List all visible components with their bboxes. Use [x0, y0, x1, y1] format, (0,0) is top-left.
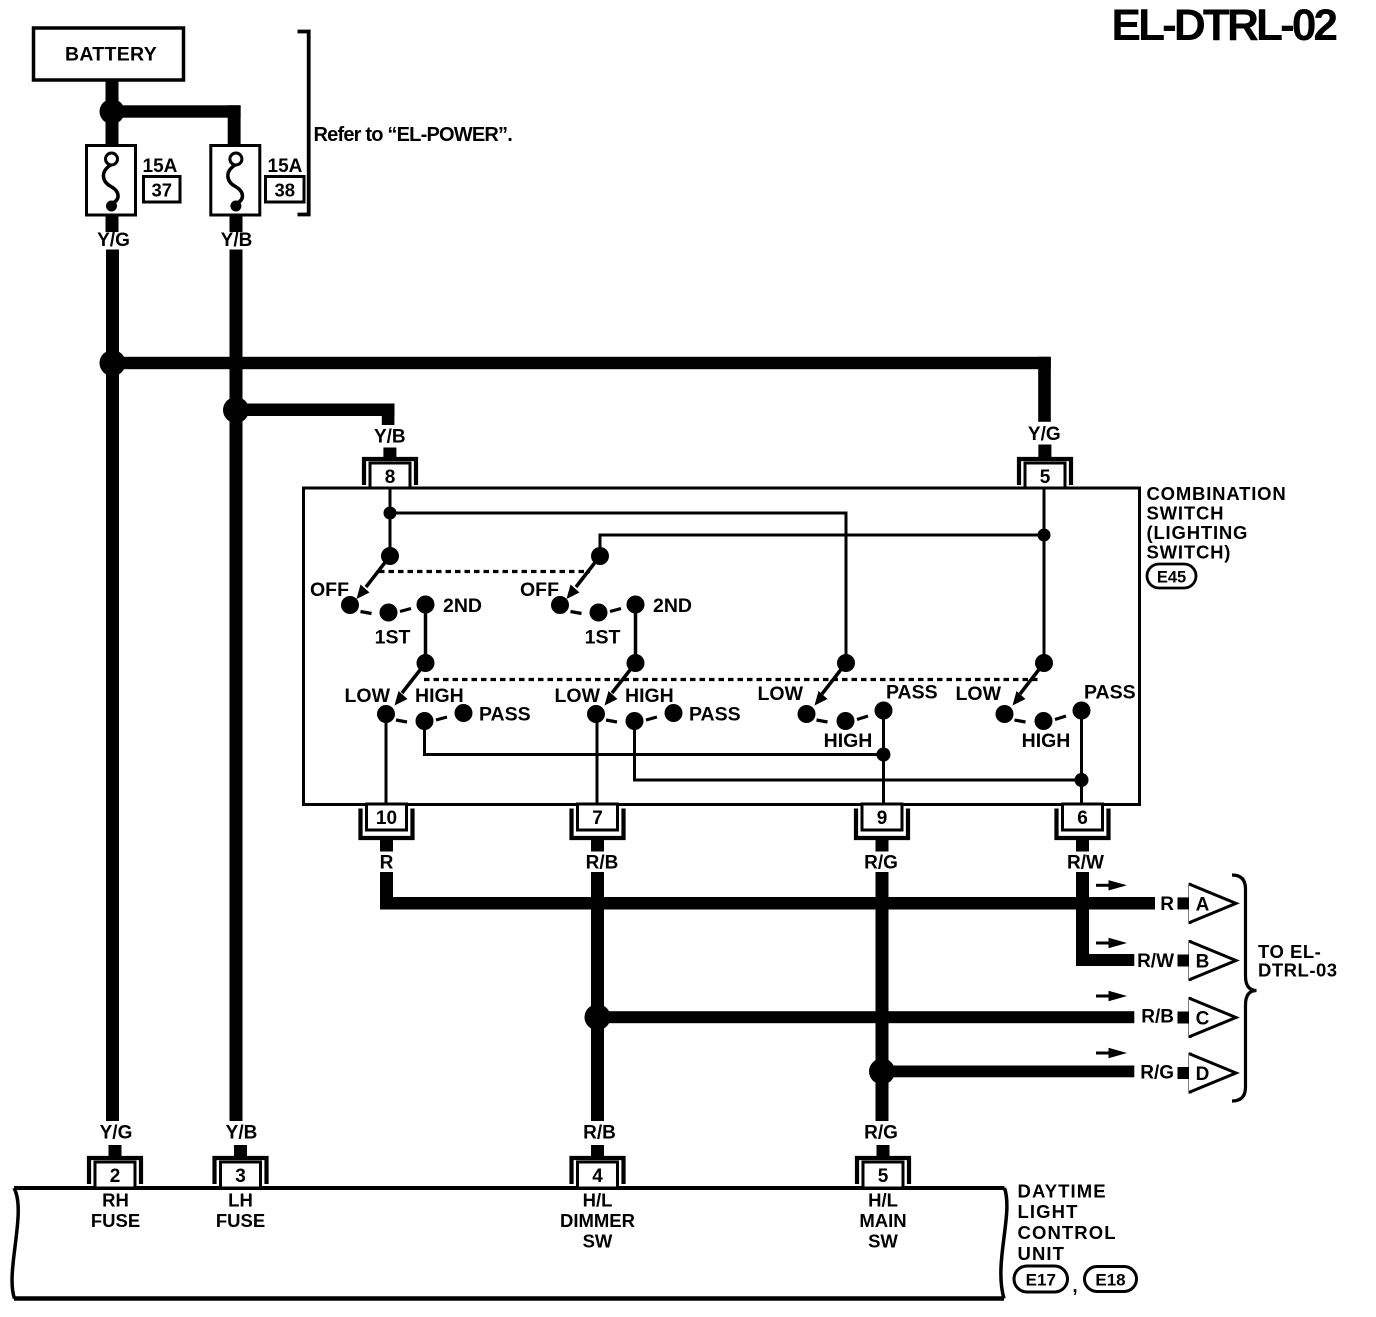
switch dimmer 3 (pins 8-9) — [758, 654, 938, 752]
daytime light control unit box E17 E18 — [12, 1188, 1007, 1299]
connector pin 5 control unit — [857, 1158, 909, 1188]
svg-text:37: 37 — [152, 179, 173, 200]
svg-text:(LIGHTING: (LIGHTING — [1147, 522, 1249, 543]
svg-text:DTRL-03: DTRL-03 — [1258, 960, 1338, 981]
dashed mechanical link lower — [424, 678, 1040, 681]
combination switch box E45 — [304, 488, 1140, 805]
label LH FUSE — [216, 1190, 265, 1232]
wire junction to fuse 38 — [112, 105, 241, 146]
svg-text:SW: SW — [868, 1230, 898, 1251]
connector pin 4 — [572, 1158, 624, 1188]
svg-text:5: 5 — [1040, 467, 1051, 488]
terminal A — [1178, 883, 1237, 924]
wire stub pin 7 — [591, 838, 604, 852]
svg-text:Y/G: Y/G — [100, 1123, 133, 1144]
wire stub pin 4 — [591, 1145, 604, 1159]
svg-text:SWITCH: SWITCH — [1147, 503, 1225, 524]
fuse number box 37 — [144, 177, 181, 203]
svg-text:38: 38 — [275, 179, 296, 200]
svg-text:PASS: PASS — [479, 704, 531, 726]
svg-text:UNIT: UNIT — [1018, 1243, 1066, 1264]
wire stub pin 5 — [1038, 445, 1051, 458]
wire pin8 branch to dimmer switch 3 — [390, 513, 846, 663]
svg-text:MAIN: MAIN — [859, 1210, 906, 1231]
svg-text:SW: SW — [583, 1230, 613, 1251]
svg-text:R/G: R/G — [1140, 1063, 1174, 1084]
connector pin 2 — [89, 1158, 141, 1188]
svg-text:HIGH: HIGH — [415, 685, 464, 707]
svg-text:Y/B: Y/B — [221, 230, 253, 251]
svg-text:SWITCH): SWITCH) — [1147, 542, 1232, 563]
connector label E45 — [1147, 564, 1196, 588]
svg-text:FUSE: FUSE — [216, 1210, 265, 1231]
svg-text:HIGH: HIGH — [1022, 730, 1071, 752]
label DAYTIME LIGHT CONTROL UNIT — [1018, 1180, 1117, 1264]
label RH FUSE — [91, 1190, 140, 1232]
wire stub pin 3 — [234, 1145, 247, 1159]
wire sw1 LOW to pin 10 — [385, 714, 388, 805]
wire junction to fuse 37 — [106, 118, 119, 146]
svg-text:LOW: LOW — [345, 685, 391, 707]
connector label E18 — [1085, 1267, 1137, 1292]
fuse 37 15A — [87, 146, 136, 216]
svg-text:HIGH: HIGH — [625, 685, 674, 707]
connector pin 8 — [364, 459, 416, 489]
label H/L MAIN SW — [859, 1190, 906, 1252]
svg-text:Y/G: Y/G — [1028, 424, 1061, 445]
svg-text:7: 7 — [592, 808, 603, 829]
switch dimmer 4 (pins 5-6) — [956, 654, 1136, 752]
dashed mechanical link upper — [379, 570, 590, 573]
connector pin 10 — [361, 804, 413, 838]
terminal C — [1178, 997, 1237, 1038]
node pin5 branch — [1038, 529, 1051, 542]
svg-text:EL-DTRL-02: EL-DTRL-02 — [1111, 1, 1336, 50]
svg-text:C: C — [1196, 1008, 1210, 1029]
svg-text:4: 4 — [592, 1166, 603, 1187]
svg-text:OFF: OFF — [520, 579, 559, 601]
wire Y/G vertical run — [106, 250, 119, 1122]
svg-text:H/L: H/L — [868, 1190, 898, 1211]
svg-text:E17: E17 — [1026, 1270, 1056, 1289]
connector pin 6 — [1057, 804, 1109, 838]
svg-text:LIGHT: LIGHT — [1018, 1201, 1079, 1222]
svg-text:B: B — [1196, 951, 1210, 972]
svg-text:9: 9 — [877, 808, 888, 829]
wire sw1 HIGH to pin 9 net — [425, 721, 884, 755]
svg-text:2ND: 2ND — [653, 595, 692, 617]
svg-text:LOW: LOW — [555, 685, 601, 707]
svg-text:R: R — [380, 853, 394, 874]
wire R/B vertical run — [591, 872, 604, 1121]
svg-text:2ND: 2ND — [443, 595, 482, 617]
node Y/B junction — [223, 397, 249, 423]
svg-text:PASS: PASS — [886, 682, 938, 704]
svg-text:LOW: LOW — [758, 683, 804, 705]
flow arrow B — [1096, 942, 1112, 945]
wire Y/B vertical run — [230, 250, 243, 1122]
node R/G junction — [869, 1058, 895, 1084]
wire sw4 PASS to pin 6 — [1080, 711, 1083, 806]
wire stub pin 6 — [1076, 838, 1089, 852]
wire pin 5 riser — [1043, 489, 1046, 663]
svg-text:RH: RH — [102, 1190, 129, 1211]
svg-text:6: 6 — [1077, 808, 1088, 829]
svg-text:PASS: PASS — [1084, 682, 1136, 704]
flow arrow D — [1096, 1052, 1112, 1055]
svg-text:R/B: R/B — [586, 853, 619, 874]
node HIGH1/PASS3 junction — [877, 748, 891, 762]
wire R/W to terminal B — [1076, 872, 1134, 966]
label H/L DIMMER SW — [560, 1190, 635, 1252]
svg-text:R/B: R/B — [583, 1123, 616, 1144]
fuse number box 38 — [266, 177, 305, 203]
svg-text:OFF: OFF — [310, 579, 349, 601]
svg-text:CONTROL: CONTROL — [1018, 1222, 1117, 1243]
svg-text:COMBINATION: COMBINATION — [1147, 483, 1287, 504]
svg-text:Y/G: Y/G — [97, 230, 130, 251]
switch lighting 2 (pins 5-7) — [520, 547, 741, 730]
node battery junction — [100, 99, 125, 124]
label combination switch — [1147, 483, 1287, 563]
svg-text:15A: 15A — [268, 156, 303, 177]
brace to EL-DTRL-03 — [1232, 875, 1257, 1101]
svg-text:1ST: 1ST — [585, 627, 621, 649]
node R/B junction — [585, 1004, 611, 1030]
svg-text:E18: E18 — [1095, 1270, 1125, 1289]
svg-text:8: 8 — [385, 467, 396, 488]
svg-text:DIMMER: DIMMER — [560, 1210, 635, 1231]
svg-text:Y/B: Y/B — [374, 427, 406, 448]
wire fuse 37 output stub — [106, 215, 119, 232]
svg-text:10: 10 — [376, 808, 397, 829]
svg-text:H/L: H/L — [583, 1190, 613, 1211]
wire stub pin 10 — [380, 838, 393, 852]
wire stub pin 5 control unit — [877, 1145, 890, 1159]
flow arrow A — [1096, 884, 1112, 887]
wire sw3 PASS to pin 9 — [882, 711, 885, 806]
terminal D — [1178, 1053, 1237, 1094]
svg-text:R/B: R/B — [1141, 1007, 1174, 1028]
svg-text:R/W: R/W — [1067, 853, 1104, 874]
connector pin 5 — [1019, 459, 1071, 489]
node Y/G junction — [100, 350, 126, 376]
node pin8 branch — [384, 507, 397, 520]
connector pin 9 — [856, 804, 908, 838]
wire sw2 HIGH to pin 6 net — [635, 721, 1082, 780]
svg-text:3: 3 — [235, 1166, 246, 1187]
switch lighting 1 (pins 8-10) — [310, 547, 531, 730]
node HIGH2/PASS4 junction — [1075, 773, 1089, 787]
wire R/B to terminal C — [598, 1011, 1135, 1023]
svg-text:R/W: R/W — [1137, 951, 1174, 972]
svg-text:D: D — [1196, 1064, 1210, 1085]
wire sw2 LOW to pin 7 — [596, 714, 599, 805]
wire R/G vertical run — [876, 872, 889, 1121]
wire pin5 branch to lighting switch 2 — [600, 535, 1044, 556]
wire Y/G junction to pin 5 — [113, 357, 1051, 422]
wire fuse 38 output stub — [230, 215, 243, 232]
connector label E17 — [1014, 1266, 1068, 1292]
svg-text:Refer to “EL-POWER”.: Refer to “EL-POWER”. — [314, 124, 513, 146]
svg-text:LH: LH — [228, 1190, 253, 1211]
svg-text:HIGH: HIGH — [824, 730, 873, 752]
svg-text:R/G: R/G — [864, 1123, 898, 1144]
svg-text:5: 5 — [878, 1166, 889, 1187]
wire R to terminal A — [380, 872, 1155, 910]
svg-text:R: R — [1160, 894, 1174, 915]
svg-text:E45: E45 — [1157, 568, 1186, 586]
svg-text:,: , — [1072, 1276, 1077, 1297]
connector pin 7 — [572, 804, 624, 838]
svg-text:15A: 15A — [143, 156, 178, 177]
svg-text:PASS: PASS — [689, 704, 741, 726]
wire Y/B junction to pin 8 — [236, 404, 395, 426]
svg-text:R/G: R/G — [864, 853, 898, 874]
wire stub pin 9 — [876, 838, 889, 852]
terminal B — [1178, 940, 1237, 981]
wire stub pin 8 — [383, 448, 396, 460]
svg-text:LOW: LOW — [956, 683, 1002, 705]
battery — [34, 28, 184, 80]
bracket refer to EL-POWER — [298, 32, 309, 215]
flow arrow C — [1096, 995, 1112, 998]
svg-text:A: A — [1196, 894, 1210, 915]
svg-text:2: 2 — [110, 1166, 121, 1187]
fuse 38 15A — [211, 146, 260, 216]
wire pin 8 riser — [389, 489, 392, 556]
svg-text:BATTERY: BATTERY — [65, 44, 157, 66]
wire R/G to terminal D — [882, 1066, 1134, 1078]
connector pin 3 — [215, 1158, 267, 1188]
note TO EL-DTRL-03 — [1258, 941, 1338, 981]
wire stub pin 2 — [109, 1145, 122, 1159]
svg-text:FUSE: FUSE — [91, 1210, 140, 1231]
svg-text:Y/B: Y/B — [226, 1123, 258, 1144]
wire battery to junction — [106, 80, 119, 102]
svg-text:1ST: 1ST — [375, 627, 411, 649]
svg-text:DAYTIME: DAYTIME — [1018, 1180, 1107, 1201]
